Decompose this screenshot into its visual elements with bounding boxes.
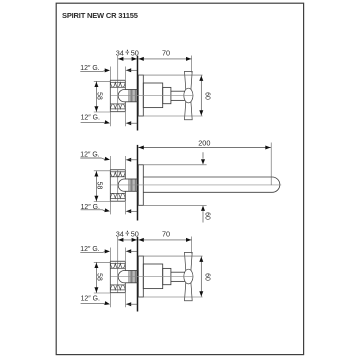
trim sleeve top	[143, 83, 162, 108]
dimension 60 extension lines bottom	[138, 255, 202, 257]
dimension 34-50 line top	[118, 58, 137, 60]
wall line bottom	[137, 237, 139, 312]
valve top bottom hex nut 1/2"	[110, 104, 125, 109]
axis centerline top	[111, 95, 194, 97]
svg-text:60: 60	[203, 212, 210, 220]
trim neck bottom	[163, 268, 171, 284]
valve bottom fitting centerline	[117, 261, 119, 292]
outlet extension line bottom-drawing	[109, 293, 111, 308]
valve middle threaded stem	[124, 178, 137, 180]
axis centerline middle	[111, 184, 281, 186]
leader arrow to body bottom top-drawing	[126, 121, 131, 125]
svg-text:SPIRIT NEW CR 31155: SPIRIT NEW CR 31155	[62, 11, 138, 20]
leader arrow to body bottom-drawing upper	[126, 249, 131, 253]
spout middle	[143, 177, 280, 192]
svg-text:60: 60	[204, 92, 211, 100]
escutcheon plate top	[138, 75, 143, 116]
dimension 70 line top	[138, 58, 191, 60]
handle stem bottom	[171, 271, 185, 273]
svg-text:34: 34	[116, 229, 124, 238]
valve middle in-wall body	[109, 170, 111, 201]
valve bottom top hex nut 1/2"	[110, 267, 125, 269]
valve bottom bottom hex nut 1/2"	[110, 285, 125, 290]
svg-text:50: 50	[131, 229, 139, 238]
valve top threaded stem	[124, 89, 137, 91]
dimension 200 line	[138, 147, 271, 149]
svg-text:70: 70	[162, 48, 170, 57]
svg-text:58: 58	[96, 182, 103, 190]
dimension 60 line bottom	[200, 256, 202, 297]
border frame	[56, 3, 303, 354]
valve top in-wall body	[109, 80, 111, 111]
dimension 58 line top	[95, 81, 97, 112]
valve middle top flange	[110, 169, 125, 171]
dimension 58 line middle	[95, 171, 97, 202]
trim neck top	[163, 87, 171, 103]
cross handle bottom arm bottom	[185, 280, 193, 301]
dimension 34-50 left extension top	[117, 56, 119, 80]
body edge extension bottom-drawing lower	[124, 293, 126, 308]
dimension 58 line bottom	[95, 262, 97, 293]
dimension 60 line top	[200, 75, 202, 116]
dimension 200 right extension	[270, 143, 272, 186]
axis centerline bottom	[111, 276, 194, 278]
svg-text:60: 60	[204, 273, 211, 281]
valve middle body	[110, 192, 125, 194]
inlet extension line middle	[109, 156, 111, 170]
inlet extension line top	[109, 67, 111, 81]
leader line bottom inlet	[80, 251, 102, 253]
valve bottom cartridge dome	[118, 271, 124, 283]
leader line middle outlet	[81, 209, 103, 211]
valve middle fitting centerline	[117, 170, 119, 201]
cross handle bottom arm top	[185, 99, 193, 120]
valve bottom threaded stem	[124, 270, 137, 272]
outlet extension line top	[109, 112, 111, 127]
cross handle top arm bottom	[185, 252, 193, 273]
valve top cartridge dome	[118, 90, 124, 102]
escutcheon plate middle	[138, 165, 143, 206]
dimension 34-50 line bottom	[118, 239, 137, 241]
handle stem top	[171, 90, 185, 92]
dimension 70 right extension top	[191, 56, 193, 73]
leader arrow to body bottom-drawing lower	[126, 302, 131, 306]
leader arrow to body middle upper	[126, 158, 131, 162]
body edge extension middle upper	[124, 156, 126, 170]
valve middle cartridge dome	[118, 179, 124, 191]
trim sleeve bottom	[143, 264, 162, 289]
svg-text:70: 70	[162, 229, 170, 238]
wall line middle	[137, 145, 139, 221]
svg-text:12″ G.: 12″ G.	[80, 65, 99, 72]
body edge extension bottom top-drawing	[124, 112, 126, 127]
leader line top outlet	[81, 121, 103, 123]
svg-text:200: 200	[198, 138, 210, 147]
valve middle bottom flange	[110, 200, 125, 202]
dimension 58 extension lines bottom	[94, 261, 111, 263]
valve top top hex nut 1/2"	[110, 86, 125, 88]
svg-text:58: 58	[96, 273, 103, 281]
leader line middle inlet	[80, 157, 101, 159]
valve bottom in-wall body	[109, 261, 111, 292]
valve middle top hex nut 1/2"	[110, 176, 125, 178]
valve top top flange	[110, 79, 125, 81]
dimension 58 extension lines middle	[94, 170, 111, 172]
valve bottom bottom flange	[110, 292, 125, 294]
dimension 60 spout arrows	[202, 152, 204, 158]
svg-text:12″ G.: 12″ G.	[80, 246, 99, 253]
svg-text:12″ G.: 12″ G.	[81, 296, 100, 303]
body edge extension middle lower	[124, 201, 126, 214]
cross handle hub bottom	[184, 269, 193, 284]
valve top body	[110, 103, 125, 105]
svg-text:34: 34	[116, 48, 124, 57]
dimension 60 spout extension lines	[143, 164, 206, 166]
valve bottom body	[110, 284, 125, 286]
svg-text:58: 58	[96, 92, 103, 100]
valve top bottom flange	[110, 111, 125, 113]
body edge extension top	[124, 67, 126, 81]
svg-text:12″ G.: 12″ G.	[81, 115, 100, 122]
dimension 60 extension lines top	[138, 74, 202, 76]
leader line top inlet	[80, 70, 102, 72]
dimension 70 line bottom	[138, 239, 191, 241]
leader arrow to body middle lower	[126, 209, 131, 213]
wall line top	[137, 56, 139, 131]
valve middle bottom hex nut 1/2"	[110, 193, 125, 198]
valve top fitting centerline	[117, 80, 119, 111]
escutcheon plate bottom	[138, 256, 143, 297]
body edge extension bottom-drawing upper	[124, 248, 126, 262]
valve bottom top flange	[110, 260, 125, 262]
dimension 34-50 left extension bottom	[117, 237, 119, 261]
dimension 58 extension lines top	[94, 80, 111, 82]
cross handle hub top	[184, 88, 193, 103]
cross handle top arm top	[185, 71, 193, 92]
inlet extension line bottom	[109, 248, 111, 262]
svg-text:50: 50	[131, 48, 139, 57]
svg-text:12″ G.: 12″ G.	[80, 152, 99, 159]
dimension 70 right extension bottom	[191, 237, 193, 254]
outlet extension line middle	[109, 201, 111, 214]
leader line bottom outlet	[81, 302, 103, 304]
leader arrow to body top	[126, 68, 131, 72]
